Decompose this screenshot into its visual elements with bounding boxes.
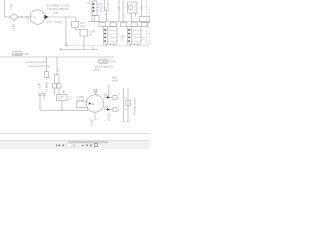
svg-text:B+ 0.5BR/BL 12V 30A: B+ 0.5BR/BL 12V 30A xyxy=(47,5,70,8)
svg-text:M5/2: M5/2 xyxy=(112,78,118,80)
svg-text:X14/5: X14/5 xyxy=(28,15,30,22)
svg-text:0.5 BR: 0.5 BR xyxy=(122,35,124,42)
svg-text:K 57: K 57 xyxy=(80,23,85,25)
svg-text:S 204: S 204 xyxy=(89,32,96,34)
svg-text:C 204: C 204 xyxy=(11,3,13,10)
svg-text:0.5 BR: 0.5 BR xyxy=(64,90,66,97)
svg-text:relay: relay xyxy=(80,25,86,28)
svg-text:connector X30/2 term: connector X30/2 term xyxy=(28,65,50,68)
svg-text:0.5 BR: 0.5 BR xyxy=(109,62,116,64)
svg-text:0.5 BR: 0.5 BR xyxy=(14,24,16,31)
svg-text:X 28: X 28 xyxy=(58,98,63,100)
svg-text:0.5W SIG 0.5BR F23: 0.5W SIG 0.5BR F23 xyxy=(47,9,69,11)
svg-text:0.5 SW: 0.5 SW xyxy=(109,113,111,121)
svg-text:2.5 SW: 2.5 SW xyxy=(77,100,85,102)
svg-text:0.5 BR/BL: 0.5 BR/BL xyxy=(46,81,48,92)
svg-text:pump motor: pump motor xyxy=(108,84,111,96)
svg-text:see fuse box detail A: see fuse box detail A xyxy=(25,61,47,64)
svg-text:L234: L234 xyxy=(53,13,59,15)
svg-text:GND 2: GND 2 xyxy=(55,22,63,24)
svg-text:12V: 12V xyxy=(47,22,52,24)
svg-text:0.5BR: 0.5BR xyxy=(93,70,100,72)
svg-text:0.5 BR: 0.5 BR xyxy=(22,54,29,56)
svg-text:0.5 BR: 0.5 BR xyxy=(92,119,94,126)
svg-text:sw: sw xyxy=(89,35,92,37)
svg-text:Steering column: Steering column xyxy=(134,98,137,115)
svg-text:pump: pump xyxy=(112,81,118,83)
svg-text:ground strap W12: ground strap W12 xyxy=(95,66,114,69)
svg-text:0.5 BR: 0.5 BR xyxy=(39,83,41,90)
